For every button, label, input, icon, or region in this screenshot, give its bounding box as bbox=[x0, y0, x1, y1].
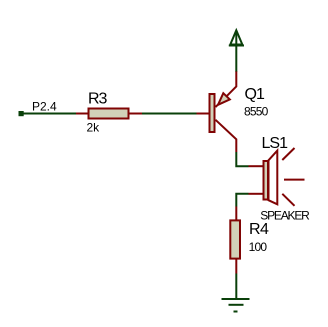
wire R3 to Q1 base bbox=[142, 113, 197, 115]
svg-text:R4: R4 bbox=[249, 221, 269, 238]
transistor Q1 base bar bbox=[210, 94, 215, 132]
svg-text:P2.4: P2.4 bbox=[32, 100, 57, 114]
svg-text:2k: 2k bbox=[87, 121, 101, 135]
speaker LS1 sound waves bbox=[282, 148, 304, 206]
wire LS1 bottom pin to R4 bbox=[236, 194, 248, 207]
wire emitter to power bbox=[235, 47, 237, 72]
power symbol VCC arrow bbox=[229, 30, 244, 46]
transistor Q1 collector lead bbox=[216, 120, 237, 152]
wire P2.4 to R3 bbox=[24, 113, 77, 115]
resistor R4 bottom pin bbox=[235, 260, 237, 274]
speaker LS1 bottom pin bbox=[249, 193, 263, 195]
transistor Q1 emitter lead bbox=[216, 71, 237, 107]
speaker LS1 top pin bbox=[249, 165, 263, 167]
resistor R3 right pin bbox=[130, 113, 143, 115]
svg-text:100: 100 bbox=[249, 240, 268, 254]
svg-text:Q1: Q1 bbox=[245, 86, 265, 103]
resistor R3 body bbox=[89, 109, 129, 119]
wire R4 to ground bbox=[235, 274, 237, 300]
resistor R4 top pin bbox=[235, 207, 237, 221]
svg-text:8550: 8550 bbox=[244, 104, 269, 118]
svg-text:R3: R3 bbox=[88, 91, 108, 108]
resistor R3 left pin bbox=[76, 113, 88, 115]
wire collector to LS1 top pin bbox=[236, 152, 248, 166]
speaker LS1 body bbox=[264, 151, 278, 205]
resistor R4 body bbox=[230, 220, 240, 258]
ground bbox=[222, 299, 250, 312]
node P2.4 terminal dot bbox=[19, 111, 24, 116]
transistor Q1 emitter arrow (PNP) bbox=[218, 93, 230, 105]
svg-text:LS1: LS1 bbox=[262, 135, 289, 152]
transistor Q1 base pin bbox=[197, 113, 209, 115]
